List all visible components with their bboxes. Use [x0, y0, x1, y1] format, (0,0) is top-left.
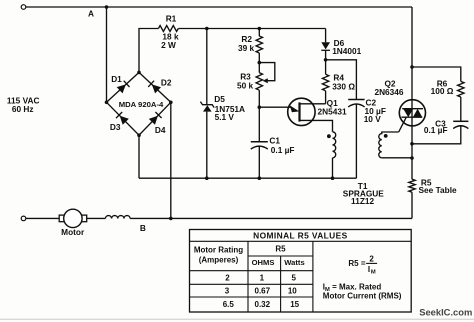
table cell 15: [290, 300, 299, 309]
resistor R5: [409, 179, 415, 192]
table cell 3: [225, 287, 230, 296]
transformer T1 secondary phasing dot: [384, 134, 388, 138]
svg-text:(Amperes): (Amperes): [199, 256, 239, 265]
wire C1 to negative rail: [258, 146, 260, 178]
table column line 1: [247, 241, 249, 312]
svg-text:M: M: [371, 269, 376, 275]
capacitor C1: [251, 142, 268, 149]
node A junction dot: [105, 5, 109, 9]
filter choke (inductor): [105, 216, 130, 219]
wire Q2 anode node to R6: [412, 67, 461, 81]
source label 60 Hz: [12, 104, 34, 114]
wire R4 to Q1 base-two: [325, 91, 327, 104]
table row line under headers: [190, 270, 313, 272]
junction dot D6-C2 node: [324, 58, 328, 62]
wire Q1 emitter from divider node: [259, 106, 291, 108]
table header Motor Rating: [194, 245, 243, 254]
junction dot rail to D5: [205, 27, 209, 31]
resistor R2 value 39 k: [238, 43, 255, 53]
junction dot T1 primary on negative rail: [331, 176, 335, 180]
wire bridge edge bottom-right: [139, 102, 171, 135]
potentiometer R3 value 50 k: [237, 80, 254, 90]
wire terminal to motor: [26, 217, 60, 219]
potentiometer R3 label: [240, 72, 251, 82]
potentiometer R3 wiper arm: [259, 63, 275, 84]
svg-text:Motor: Motor: [61, 227, 85, 237]
table row line 3: [190, 296, 313, 298]
wire regulated rail from R1 to D6 corner: [178, 28, 325, 30]
svg-text:OHMS: OHMS: [252, 258, 275, 267]
diode D1: [117, 81, 130, 94]
table outer box: [190, 230, 412, 313]
junction dot bridge left vertex: [105, 101, 109, 105]
table column line 2: [280, 256, 282, 312]
diode D6: [321, 42, 330, 50]
table cell 0.32: [255, 300, 271, 309]
motor label: [61, 227, 85, 237]
svg-text:D4: D4: [155, 125, 166, 135]
resistor R2: [256, 36, 262, 53]
table header OHMS: [252, 258, 275, 267]
wire bridge edge top-left: [107, 72, 140, 102]
svg-text:10: 10: [288, 287, 297, 296]
wire node B line to R5: [130, 217, 412, 219]
diode D6 label: [334, 38, 345, 48]
diode D6 part 1N4001: [332, 46, 361, 56]
svg-text:11Z12: 11Z12: [351, 196, 374, 206]
table row line 2: [190, 283, 313, 285]
svg-text:Motor Rating: Motor Rating: [194, 245, 243, 254]
zener D5 label: [214, 94, 225, 104]
table cell 5: [291, 274, 296, 283]
svg-text:D1: D1: [111, 74, 122, 84]
junction dot bridge right vertex: [169, 101, 173, 105]
table cell 10: [288, 287, 297, 296]
wire C3 back to Q2 cathode line: [412, 126, 461, 144]
transistor Q1 body circle: [288, 98, 315, 125]
capacitor C1 value 0.1 uF: [271, 145, 295, 155]
table cell 6.5: [223, 300, 235, 309]
table header Watts: [284, 258, 304, 267]
bridge value label MDA 920A-4: [119, 100, 164, 109]
wire D5 cathode to negative rail: [206, 112, 208, 179]
svg-text:C1: C1: [269, 136, 280, 146]
transformer T1 secondary winding: [379, 132, 412, 158]
wire D5 anode from rail: [206, 29, 208, 105]
svg-text:10 V: 10 V: [364, 114, 382, 124]
capacitor C2: [348, 100, 364, 107]
transistor Q1 base bar: [298, 102, 300, 121]
svg-text:0.67: 0.67: [255, 287, 271, 296]
junction dot bridge bottom vertex: [137, 133, 141, 137]
wire R3 to C1: [258, 90, 260, 142]
wire R2 to R3: [258, 53, 260, 73]
wire rail to R2: [258, 29, 260, 37]
svg-text:15: 15: [290, 300, 299, 309]
wire bridge edge bottom-left: [107, 102, 140, 135]
input terminal (bottom, motor line): [21, 216, 26, 221]
zener D5 value 5.1 V: [215, 112, 235, 122]
svg-text:A: A: [88, 9, 94, 19]
wire Q2 gate from T1 secondary: [399, 117, 407, 132]
capacitor C3 value 0.1 uF: [424, 125, 448, 135]
table cell 1: [260, 274, 265, 283]
diode D3: [116, 112, 129, 125]
wire bridge edge top-right: [139, 72, 171, 102]
svg-text:B: B: [140, 223, 146, 233]
svg-text:5: 5: [291, 274, 296, 283]
svg-text:5.1 V: 5.1 V: [215, 112, 235, 122]
wire D6 node to C2 top: [326, 60, 357, 100]
diode D4 label: [155, 125, 166, 135]
capacitor C2 rating 10 V: [364, 114, 382, 124]
svg-text:2: 2: [369, 254, 374, 263]
input terminal (top, line A): [21, 5, 26, 10]
zener D5 part 1N751A: [215, 104, 245, 114]
zener diode D5: [200, 102, 214, 112]
svg-text:0.1 µF: 0.1 µF: [271, 145, 295, 155]
svg-text:Watts: Watts: [284, 258, 304, 267]
svg-text:330 Ω: 330 Ω: [332, 81, 355, 91]
junction dot wiper tie: [258, 61, 262, 65]
junction dot snubber return: [410, 142, 414, 146]
svg-text:D2: D2: [161, 77, 172, 87]
transformer T1 primary winding: [333, 132, 336, 178]
formula denominator I_M: [368, 265, 376, 276]
wire right rail below R5 to motor line corner: [411, 192, 413, 218]
svg-text:2N5431: 2N5431: [318, 106, 347, 116]
formula R5 equals: [348, 259, 365, 268]
svg-text:R1: R1: [166, 14, 177, 24]
diode D2 label: [161, 77, 172, 87]
resistor R5 note See Table: [419, 185, 458, 195]
resistor R6: [458, 81, 464, 97]
capacitor C3: [453, 121, 468, 128]
junction dot T1 secondary return: [410, 156, 414, 160]
svg-text:6.5: 6.5: [223, 300, 235, 309]
wire Q1 base-one to T1 primary: [300, 120, 333, 131]
resistor R4: [322, 74, 328, 91]
table title row line: [190, 240, 412, 242]
wire negative rail: [139, 177, 356, 179]
svg-text:3: 3: [225, 287, 230, 296]
svg-text:39 k: 39 k: [238, 43, 255, 53]
source label 115 VAC: [7, 95, 40, 105]
potentiometer R3: [256, 73, 262, 91]
triac Q2 part 2N6346: [374, 87, 403, 97]
svg-text:D3: D3: [110, 122, 121, 132]
svg-text:I: I: [368, 265, 370, 274]
transformer T1 part 11Z12: [351, 196, 374, 206]
triac Q2 bottom bus line: [401, 116, 422, 118]
svg-text:2 W: 2 W: [161, 40, 176, 50]
wire right rail down from top corner to Q2/R5: [411, 7, 413, 179]
transistor Q1 label: [327, 98, 338, 108]
wire rail corner down to D6: [325, 29, 327, 43]
triac Q2 right triangle: [413, 109, 422, 118]
junction dot bridge top vertex: [137, 71, 141, 75]
resistor R6 value 100 ohm: [431, 86, 454, 96]
resistor R1 value 18 k: [162, 32, 179, 42]
svg-text:R5: R5: [275, 245, 286, 254]
table title NOMINAL R5 VALUES: [253, 231, 347, 241]
junction dot node B: [169, 217, 173, 221]
svg-text:NOMINAL R5 VALUES: NOMINAL R5 VALUES: [253, 231, 347, 241]
node A label: [88, 9, 94, 19]
table header (Amperes): [199, 256, 239, 265]
svg-text:50 k: 50 k: [237, 80, 254, 90]
resistor R1 label: [166, 14, 177, 24]
triac Q2 label: [384, 79, 395, 89]
diode D3 label: [110, 122, 121, 132]
junction dot Q1 emitter node: [258, 105, 262, 109]
resistor R1: [158, 26, 178, 32]
junction dot Q2 anode node: [410, 65, 414, 69]
svg-text:0.1 µF: 0.1 µF: [424, 125, 448, 135]
resistor R4 label: [333, 73, 344, 83]
capacitor C2 label: [365, 97, 376, 107]
svg-text:R5 =: R5 =: [348, 259, 365, 268]
junction dot rail to R2: [258, 27, 262, 31]
svg-text:MDA 920A-4: MDA 920A-4: [119, 100, 164, 109]
svg-text:2N6346: 2N6346: [374, 87, 403, 97]
wire node A down to bridge left vertex: [106, 7, 108, 102]
wire top rail from terminal to right corner: [26, 6, 412, 8]
note I_M = Max. Rated: [323, 282, 382, 293]
capacitor C3 label: [435, 118, 446, 128]
svg-text:See Table: See Table: [419, 185, 458, 195]
wire R6 to C3: [460, 97, 462, 121]
wire bridge right vertex down to node B: [170, 102, 172, 218]
transistor Q1 part 2N5431: [318, 106, 347, 116]
capacitor C2 value 10 uF: [365, 106, 386, 116]
triac Q2 top bus line: [402, 108, 423, 110]
table column line 3: [312, 241, 314, 312]
svg-text:1: 1: [260, 274, 265, 283]
wire motor to filter choke: [87, 217, 106, 219]
wire Q1 base-two to R4: [300, 103, 326, 105]
diode D4: [149, 112, 162, 125]
table row line under R5: [248, 255, 313, 257]
table cell 2: [225, 274, 230, 283]
resistor R5 label: [421, 178, 432, 188]
resistor R2 label: [241, 34, 252, 44]
table header R5: [275, 245, 286, 254]
svg-text:SeekIC.com: SeekIC.com: [419, 306, 472, 317]
svg-text:60 Hz: 60 Hz: [12, 104, 34, 114]
transformer T1 label: [358, 181, 368, 191]
svg-text:Motor Current (RMS): Motor Current (RMS): [323, 292, 402, 301]
svg-text:2: 2: [225, 274, 230, 283]
resistor R4 value 330 ohm: [332, 81, 355, 91]
svg-text:0.32: 0.32: [255, 300, 271, 309]
resistor R6 label: [437, 79, 448, 89]
wire D6 to R4: [325, 50, 327, 74]
junction dot D5 on negative rail: [205, 176, 209, 180]
note Motor Current (RMS): [323, 292, 402, 301]
svg-text:D5: D5: [214, 94, 225, 104]
transformer T1 primary phasing dot: [327, 134, 331, 138]
diode D2: [148, 81, 161, 94]
node B label: [140, 223, 146, 233]
wire bridge top vertex up to R1: [139, 29, 158, 73]
capacitor C1 label: [269, 136, 280, 146]
watermark SeekIC.com: [419, 306, 472, 317]
svg-text:1N4001: 1N4001: [332, 46, 361, 56]
transformer T1 make SPRAGUE: [343, 189, 384, 199]
svg-text:100 Ω: 100 Ω: [431, 86, 454, 96]
triac Q2 left triangle: [403, 109, 413, 118]
formula fraction bar: [366, 262, 377, 264]
motor M symbol: [59, 209, 86, 227]
transistor Q1 emitter arrow: [290, 105, 300, 112]
junction dot C1 on negative rail: [258, 176, 262, 180]
table cell 0.67: [255, 287, 271, 296]
diode D1 label: [111, 74, 122, 84]
triac Q2 body circle: [399, 100, 425, 126]
resistor R1 value 2 W: [161, 40, 176, 50]
wire bridge bottom vertex down: [138, 135, 140, 178]
formula numerator 2: [369, 254, 374, 263]
wire C2 bottom to negative rail corner: [355, 104, 357, 178]
